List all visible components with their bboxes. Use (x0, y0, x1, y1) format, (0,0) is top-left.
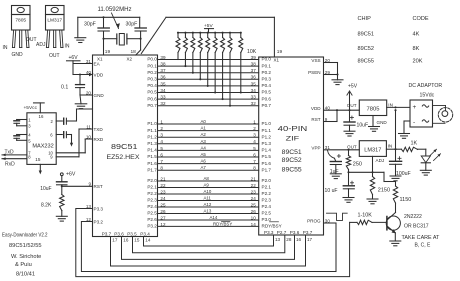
svg-text:16: 16 (39, 114, 44, 119)
svg-text:21: 21 (251, 176, 257, 181)
svg-text:8K: 8K (413, 46, 420, 52)
svg-text:250: 250 (353, 162, 362, 168)
svg-text:P1.5: P1.5 (147, 154, 157, 159)
svg-text:+6V: +6V (66, 172, 76, 178)
svg-text:8/10/41: 8/10/41 (16, 272, 35, 278)
svg-text:OUT: OUT (347, 145, 357, 150)
svg-text:89C52: 89C52 (282, 157, 302, 164)
svg-text:24: 24 (251, 196, 257, 201)
svg-text:19: 19 (277, 49, 283, 55)
svg-text:LM317: LM317 (364, 148, 381, 154)
svg-text:IN: IN (388, 143, 393, 148)
svg-text:P3.2: P3.2 (147, 224, 157, 229)
svg-text:GND: GND (12, 52, 24, 58)
svg-text:Easy-Downloader V2.2: Easy-Downloader V2.2 (2, 233, 48, 239)
svg-text:P3.2: P3.2 (94, 219, 104, 224)
svg-text:10uF: 10uF (40, 186, 51, 192)
svg-text:36: 36 (251, 75, 257, 80)
svg-text:30pF: 30pF (126, 21, 138, 27)
svg-text:W. Sirichote: W. Sirichote (11, 254, 41, 260)
svg-text:P0.2: P0.2 (147, 70, 157, 75)
svg-text:P2.1: P2.1 (147, 185, 157, 190)
svg-text:33: 33 (251, 95, 257, 100)
svg-text:OUT: OUT (26, 37, 37, 43)
svg-text:37: 37 (251, 68, 257, 73)
svg-text:25: 25 (251, 202, 257, 207)
svg-text:16: 16 (296, 237, 302, 242)
svg-text:X1: X1 (274, 57, 280, 62)
svg-text:PSEN: PSEN (308, 70, 321, 75)
svg-text:MAX232: MAX232 (32, 144, 53, 150)
svg-text:P2.3: P2.3 (262, 198, 272, 203)
svg-text:1: 1 (28, 117, 31, 122)
svg-text:P2.0: P2.0 (262, 178, 272, 183)
svg-text:10K: 10K (247, 49, 257, 55)
svg-text:P2.4: P2.4 (262, 204, 272, 209)
svg-text:P3.3: P3.3 (94, 206, 104, 211)
svg-text:10 uF: 10 uF (325, 188, 338, 194)
svg-text:23: 23 (251, 189, 257, 194)
svg-text:15: 15 (35, 157, 41, 162)
svg-text:4: 4 (253, 139, 256, 144)
svg-text:28: 28 (286, 237, 292, 242)
svg-text:P2.5: P2.5 (147, 211, 157, 216)
svg-text:5: 5 (28, 138, 31, 143)
svg-text:P3.3: P3.3 (264, 230, 274, 235)
svg-text:26: 26 (251, 209, 257, 214)
svg-text:GND: GND (377, 120, 388, 125)
svg-text:ADJ: ADJ (36, 42, 46, 48)
svg-text:P3.7: P3.7 (303, 230, 313, 235)
svg-text:15: 15 (134, 238, 140, 243)
svg-text:17: 17 (112, 238, 118, 243)
svg-text:P1.1: P1.1 (147, 128, 157, 133)
svg-text:A10: A10 (204, 189, 212, 194)
svg-text:1: 1 (253, 119, 256, 124)
svg-text:5: 5 (253, 146, 256, 151)
svg-text:A13: A13 (204, 209, 212, 214)
svg-text:PROG: PROG (307, 219, 321, 224)
svg-text:89C55: 89C55 (358, 58, 374, 64)
svg-text:OUT: OUT (347, 103, 357, 108)
svg-text:1150: 1150 (400, 197, 412, 203)
svg-text:22: 22 (251, 183, 257, 188)
svg-text:A2: A2 (201, 132, 207, 137)
svg-text:20K: 20K (413, 58, 423, 64)
svg-text:P3.5: P3.5 (127, 231, 137, 236)
svg-text:ZIF: ZIF (286, 136, 300, 143)
svg-text:IN: IN (3, 45, 8, 51)
svg-text:RST: RST (94, 184, 103, 189)
svg-text:P1.1: P1.1 (262, 128, 272, 133)
svg-text:P1.0: P1.0 (262, 121, 272, 126)
svg-text:P0.5: P0.5 (147, 90, 157, 95)
svg-text:P1.3: P1.3 (262, 141, 272, 146)
svg-text:A6: A6 (201, 159, 207, 164)
svg-text:89C51: 89C51 (111, 144, 138, 151)
svg-text:RxD: RxD (5, 162, 15, 168)
svg-text:89C51: 89C51 (282, 149, 302, 156)
svg-text:P2.7: P2.7 (277, 230, 287, 235)
svg-text:P0.4: P0.4 (147, 83, 157, 88)
svg-text:3: 3 (28, 124, 31, 129)
svg-text:1K: 1K (411, 141, 418, 147)
svg-text:40-PIN: 40-PIN (278, 124, 308, 133)
svg-text:9: 9 (88, 181, 91, 186)
svg-text:-: - (413, 119, 415, 126)
svg-text:0.1: 0.1 (61, 84, 68, 90)
svg-text:1-10K: 1-10K (358, 213, 373, 219)
svg-text:A7: A7 (201, 165, 207, 170)
svg-text:VDD: VDD (311, 106, 321, 111)
svg-text:35: 35 (251, 81, 257, 86)
svg-text:P0.2: P0.2 (262, 70, 272, 75)
svg-text:P0.1: P0.1 (262, 63, 272, 68)
svg-text:P0.0: P0.0 (262, 57, 272, 62)
svg-text:89C55: 89C55 (282, 166, 302, 173)
svg-text:P0.5: P0.5 (262, 90, 272, 95)
svg-text:TXD: TXD (94, 127, 104, 132)
svg-text:2: 2 (51, 119, 54, 124)
svg-text:P1.4: P1.4 (147, 148, 157, 153)
svg-text:P0.7: P0.7 (262, 103, 272, 108)
svg-text:& Puiu: & Puiu (15, 262, 32, 268)
svg-text:3: 3 (253, 133, 256, 138)
svg-text:P2.1: P2.1 (262, 185, 272, 190)
svg-text:17: 17 (307, 237, 313, 242)
svg-text:A0: A0 (201, 119, 207, 124)
svg-text:18: 18 (131, 49, 137, 55)
svg-text:OR BC317: OR BC317 (404, 224, 429, 230)
svg-text:+5V: +5V (348, 84, 358, 90)
svg-text:TAKE CARE AT: TAKE CARE AT (402, 235, 441, 241)
svg-text:RDY/BSY: RDY/BSY (213, 221, 232, 226)
svg-text:2150: 2150 (378, 188, 390, 194)
svg-text:P0.6: P0.6 (262, 96, 272, 101)
svg-text:4: 4 (28, 133, 31, 138)
svg-text:P0.7: P0.7 (147, 103, 157, 108)
svg-text:A14: A14 (210, 215, 218, 220)
svg-text:CHIP: CHIP (358, 16, 372, 22)
svg-text:DC ADAPTOR: DC ADAPTOR (409, 83, 443, 89)
svg-text:A1: A1 (201, 126, 207, 131)
svg-text:89C52: 89C52 (358, 46, 374, 52)
svg-text:8: 8 (28, 155, 31, 160)
svg-text:8: 8 (253, 166, 256, 171)
svg-text:10: 10 (251, 215, 257, 220)
svg-text:P0.0: P0.0 (147, 57, 157, 62)
svg-text:P3.6: P3.6 (114, 231, 124, 236)
svg-text:11.0592MHz: 11.0592MHz (98, 6, 132, 13)
svg-text:IN: IN (388, 103, 393, 108)
svg-text:30pF: 30pF (84, 21, 96, 27)
svg-text:39: 39 (251, 55, 257, 60)
svg-text:19: 19 (105, 49, 111, 55)
svg-text:CODE: CODE (413, 16, 429, 22)
svg-text:38: 38 (251, 62, 257, 67)
svg-text:RST: RST (311, 117, 320, 122)
svg-text:+5Vcc: +5Vcc (24, 105, 38, 111)
svg-text:VSS: VSS (311, 58, 320, 63)
svg-text:2N2222: 2N2222 (404, 214, 422, 220)
svg-text:89C51: 89C51 (358, 31, 374, 37)
svg-text:A12: A12 (204, 202, 212, 207)
svg-text:2: 2 (253, 126, 256, 131)
svg-text:P0.3: P0.3 (147, 77, 157, 82)
svg-text:EA: EA (94, 61, 101, 66)
svg-text:7805: 7805 (15, 18, 26, 24)
svg-text:RDY/BSY: RDY/BSY (262, 224, 282, 229)
svg-text:89C51/52/55: 89C51/52/55 (9, 243, 42, 249)
svg-text:P1.3: P1.3 (147, 141, 157, 146)
svg-text:P2.3: P2.3 (147, 198, 157, 203)
svg-text:P2.4: P2.4 (147, 204, 157, 209)
svg-text:13: 13 (275, 237, 281, 242)
svg-text:P0.1: P0.1 (147, 63, 157, 68)
svg-text:7805: 7805 (367, 107, 380, 113)
svg-text:8.2K: 8.2K (41, 203, 52, 209)
svg-text:GND: GND (94, 93, 105, 98)
svg-text:EZ52.HEX: EZ52.HEX (107, 154, 141, 161)
svg-text:VDD: VDD (94, 72, 104, 77)
svg-text:6: 6 (50, 133, 53, 138)
svg-text:14: 14 (145, 238, 151, 243)
svg-text:P3.7: P3.7 (102, 231, 112, 236)
svg-text:P2.0: P2.0 (147, 178, 157, 183)
svg-text:B, C, E: B, C, E (415, 242, 432, 248)
svg-text:P1.2: P1.2 (262, 134, 272, 139)
svg-text:16: 16 (123, 238, 129, 243)
svg-text:X2: X2 (127, 57, 133, 62)
svg-text:34: 34 (251, 88, 257, 93)
svg-text:IN: IN (65, 44, 70, 50)
svg-text:OUT: OUT (49, 53, 60, 59)
svg-text:14: 14 (251, 222, 257, 227)
svg-text:A8: A8 (204, 176, 210, 181)
svg-text:A9: A9 (204, 183, 210, 188)
svg-text:A5: A5 (201, 152, 207, 157)
svg-text:P1.7: P1.7 (262, 167, 272, 172)
svg-text:4K: 4K (413, 31, 420, 37)
svg-text:A3: A3 (201, 139, 207, 144)
svg-text:A11: A11 (204, 196, 212, 201)
svg-text:P1.0: P1.0 (147, 121, 157, 126)
svg-text:VPP: VPP (311, 145, 320, 150)
svg-text:LM317: LM317 (47, 18, 62, 24)
svg-text:RXD: RXD (94, 137, 104, 142)
svg-text:P1.2: P1.2 (147, 134, 157, 139)
svg-text:10uF: 10uF (357, 123, 369, 129)
svg-text:P1.7: P1.7 (147, 167, 157, 172)
svg-text:P0.6: P0.6 (147, 96, 157, 101)
svg-text:P2.2: P2.2 (147, 191, 157, 196)
svg-text:P2.6: P2.6 (147, 217, 157, 222)
svg-text:P3.4: P3.4 (140, 231, 150, 236)
svg-text:P2.2: P2.2 (262, 191, 272, 196)
svg-text:A4: A4 (201, 145, 207, 150)
svg-text:P3.6: P3.6 (290, 230, 300, 235)
svg-text:P0.3: P0.3 (262, 77, 272, 82)
svg-text:32: 32 (251, 101, 257, 106)
svg-text:P0.4: P0.4 (262, 83, 272, 88)
svg-text:6: 6 (253, 152, 256, 157)
svg-text:+: + (413, 104, 417, 111)
svg-text:P2.5: P2.5 (262, 211, 272, 216)
svg-text:P1.5: P1.5 (262, 154, 272, 159)
svg-text:ADJ: ADJ (376, 158, 385, 163)
svg-text:P1.4: P1.4 (262, 148, 272, 153)
svg-text:7: 7 (253, 159, 256, 164)
svg-text:P1.6: P1.6 (147, 161, 157, 166)
svg-text:15Vdc: 15Vdc (420, 92, 435, 98)
svg-text:P1.6: P1.6 (262, 161, 272, 166)
